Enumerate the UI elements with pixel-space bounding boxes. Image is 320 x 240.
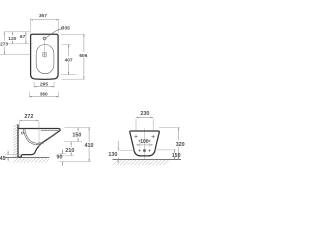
inner rim edge — [41, 130, 59, 132]
wall hatch — [13, 124, 18, 158]
svg-text:407: 407 — [65, 57, 73, 63]
svg-text:410: 410 — [85, 143, 94, 149]
plan outline — [31, 34, 58, 79]
svg-text:272: 272 — [24, 114, 33, 120]
upper holes — [134, 135, 154, 138]
dim 130 — [118, 149, 134, 151]
svg-text:100: 100 — [140, 139, 149, 145]
plan centerline — [44, 41, 46, 58]
svg-text:265: 265 — [40, 81, 48, 87]
dim 90 — [62, 149, 64, 153]
bowl front swoosh — [38, 131, 58, 147]
svg-text:67: 67 — [20, 34, 26, 40]
dim 407 — [68, 45, 70, 57]
front right ext lines — [159, 127, 180, 129]
side right ext lines — [65, 127, 91, 129]
svg-text:90: 90 — [57, 154, 63, 160]
svg-text:150: 150 — [72, 132, 81, 138]
front centerline — [144, 128, 146, 159]
svg-text:273: 273 — [0, 42, 8, 48]
svg-text:230: 230 — [140, 111, 149, 117]
floor (front view) — [113, 159, 182, 161]
dim 45 — [5, 154, 21, 156]
dim 273 — [3, 32, 5, 41]
dim 606 — [83, 34, 85, 52]
dim 367 — [29, 19, 31, 34]
svg-text:210: 210 — [65, 148, 74, 154]
dim 67 — [25, 32, 27, 44]
bowl section outer — [23, 129, 39, 145]
inlet hole — [21, 132, 23, 134]
svg-text:45: 45 — [0, 156, 6, 162]
floor (side view) — [5, 156, 49, 158]
faucet hole — [43, 37, 46, 40]
svg-text:360: 360 — [40, 91, 48, 97]
svg-text:367: 367 — [39, 13, 47, 19]
dim 265 — [33, 82, 35, 88]
right ext lines — [62, 44, 71, 46]
dim 210 — [70, 142, 72, 147]
wall line — [17, 124, 19, 157]
svg-text:130: 130 — [108, 152, 117, 158]
svg-text:320: 320 — [176, 142, 185, 148]
dim 120 — [11, 32, 13, 35]
front outline — [130, 131, 160, 156]
dim 150 (side) — [77, 128, 79, 132]
svg-text:Ø35: Ø35 — [61, 25, 70, 31]
mid holes — [139, 140, 151, 142]
svg-text:606: 606 — [79, 53, 87, 59]
dim 320 — [178, 128, 180, 140]
dim 272 — [18, 121, 20, 127]
dim 150 (front) — [174, 150, 176, 153]
svg-text:120: 120 — [8, 36, 16, 42]
plan basin — [36, 45, 54, 74]
bowl section inner — [25, 129, 37, 143]
dim 360 — [29, 92, 31, 99]
drain — [42, 52, 46, 56]
bottom holes — [138, 149, 150, 151]
dim 230 — [135, 119, 137, 131]
side profile — [18, 129, 60, 158]
nozzle — [36, 143, 44, 145]
dim 410 — [88, 128, 90, 142]
left dims: ext lines — [4, 31, 30, 33]
svg-text:150: 150 — [172, 153, 181, 159]
